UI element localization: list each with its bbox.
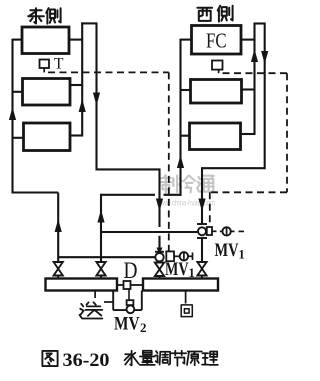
box east unit 1 (22, 27, 69, 54)
wire D sensor to return header (131, 284, 144, 286)
wire east return horizontal to valve MV1 (96, 168, 160, 170)
wire B2 left (13, 91, 24, 93)
bypass pipe bottom (113, 309, 142, 311)
sensor right dash (239, 230, 245, 232)
valve MV1 left body (155, 253, 163, 261)
wire east return riser right (95, 22, 97, 170)
wire west return loop top (254, 22, 265, 24)
wire valve to header right (201, 238, 203, 263)
sensor west box (212, 61, 223, 70)
wire supply to west horizontal (101, 194, 155, 196)
control line from T: horizontal (48, 71, 169, 73)
sensor T box (40, 60, 50, 69)
valve MV2 body (126, 305, 134, 313)
wire B2 right (69, 84, 82, 86)
control line from T: vertical to MV1 left actuator (168, 72, 170, 251)
sensor left stub (188, 255, 192, 257)
valve on supply header east (54, 262, 63, 269)
wire west B3 left (181, 135, 190, 137)
bypass pipe left (112, 291, 114, 311)
wire FC right (241, 39, 255, 41)
return header (143, 279, 218, 291)
wire actuator to sensor (174, 255, 180, 257)
svg-text:36-20: 36-20 (63, 350, 110, 371)
control line D to MV2 (128, 289, 130, 300)
svg-text:www.china-hvacr.com: www.china-hvacr.com (157, 198, 215, 208)
wire east return drop lower (158, 236, 160, 252)
sensor D body (124, 281, 131, 289)
sensor west stem (218, 70, 220, 74)
wire west return riser left (253, 23, 255, 136)
svg-text:MV: MV (215, 240, 239, 261)
return label leader (185, 291, 187, 304)
wire west return drop (201, 167, 203, 224)
box west unit 3 (190, 123, 241, 150)
pressure tap stub (104, 301, 113, 303)
wire east return loop top (81, 22, 96, 24)
svg-text:FC: FC (206, 29, 227, 53)
sensor right body (222, 227, 230, 235)
wire center supply vertical (100, 194, 102, 263)
wire B3 left (13, 137, 25, 139)
wire west return horizontal to valve (202, 167, 265, 169)
wire east left pipe vertical (11, 39, 13, 194)
wire west B2 right (242, 88, 255, 90)
wire east supply left: B1 to left pipe (13, 39, 23, 41)
valve MV1 left flange bottom (155, 262, 164, 264)
arrow up on center supply vertical (97, 210, 104, 223)
wire header to D sensor (117, 284, 124, 286)
valve MV2 actuator (127, 300, 134, 305)
wire B3 right (69, 134, 82, 136)
control line west: drop to MV1 right actuator (209, 192, 211, 227)
supply label leader (94, 291, 96, 299)
sensor right: stub (220, 230, 223, 232)
label 回 return (181, 305, 192, 317)
box east unit 3 (24, 123, 71, 151)
box east unit 2 (23, 79, 71, 106)
wire west B3 right (241, 133, 255, 135)
sensor left end bar (192, 253, 194, 261)
wire east supply drop to header (57, 193, 59, 263)
svg-text:2: 2 (140, 320, 147, 335)
supply header (46, 279, 118, 291)
label west 西侧 (197, 7, 212, 9)
wire east supply bottom horizontal (12, 191, 59, 193)
wire east return drop upper (158, 168, 160, 227)
valve MV1 left actuator (166, 251, 174, 261)
wire actuator stub right (212, 230, 217, 232)
arrow up on east return riser left (79, 99, 86, 112)
valve MV1 right body (198, 227, 206, 235)
bypass pipe right (141, 291, 143, 311)
wire B1 right (69, 39, 82, 41)
arrow up on west return riser left (251, 49, 258, 62)
caption 图 36-20 水量调节原理 (42, 351, 57, 366)
valve MV1 right flange bottom (197, 237, 207, 239)
arrow down on west return riser right (261, 51, 268, 64)
label 送 supply (86, 302, 88, 305)
valve on return header west-side (197, 262, 206, 269)
valve MV1 right flange top (197, 223, 207, 225)
wire supply tie to valve MV1 right (101, 231, 198, 233)
svg-text:MV: MV (165, 259, 189, 280)
sensor right stub2 (231, 230, 235, 232)
sensor T stem (43, 68, 45, 72)
wire FC left (181, 39, 192, 41)
wire west B2 left (181, 89, 191, 91)
valve MV1 right actuator (207, 227, 212, 235)
control line west: vertical (286, 73, 288, 192)
control line west: horizontal (223, 72, 288, 74)
wire west return riser right (264, 23, 266, 170)
arrow down on east return drop (156, 199, 163, 212)
wire supply tie to valve MV1 left (58, 256, 155, 258)
arrow up on west left pipe (177, 155, 184, 168)
arrow up on east supply drop (55, 219, 62, 232)
box west FC unit (192, 26, 242, 55)
svg-text:D: D (124, 258, 138, 283)
svg-text:T: T (54, 56, 64, 73)
label east 东侧 (30, 9, 41, 11)
box west unit 2 (191, 80, 242, 104)
svg-text:MV: MV (114, 314, 140, 335)
svg-text:1: 1 (239, 248, 245, 262)
control line west: horizontal back (210, 191, 287, 193)
wire east return riser left (81, 22, 83, 136)
valve MV1 left flange top (155, 251, 164, 253)
valve on return header east-side (155, 263, 164, 270)
wire west left pipe (179, 39, 181, 196)
arrow down on east return riser right (93, 93, 100, 106)
arrow up on east left pipe (9, 107, 16, 120)
sensor left body (180, 252, 188, 260)
arrow down on west return drop (198, 199, 205, 212)
valve on supply header center (96, 262, 105, 269)
watermark (under) (164, 175, 166, 177)
